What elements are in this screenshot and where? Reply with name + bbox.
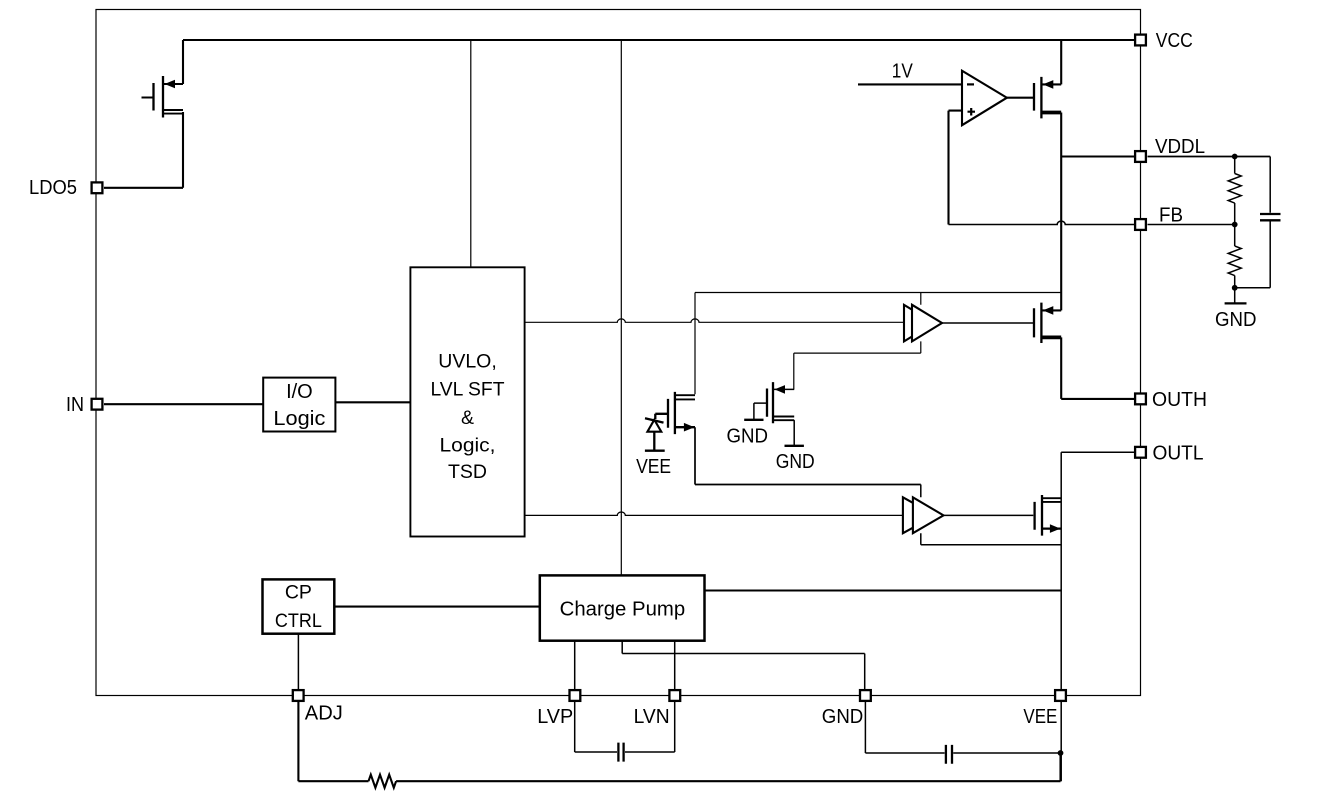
svg-text:GND: GND [727, 424, 769, 447]
svg-text:VCC: VCC [1156, 29, 1193, 52]
svg-text:UVLO,: UVLO, [438, 351, 497, 373]
svg-text:&: & [461, 407, 474, 429]
svg-text:TSD: TSD [448, 461, 487, 483]
svg-text:GND: GND [822, 705, 864, 728]
svg-text:GND: GND [1215, 308, 1257, 331]
svg-text:LVP: LVP [537, 705, 573, 728]
svg-text:Logic: Logic [273, 408, 325, 430]
svg-text:CTRL: CTRL [275, 610, 322, 632]
svg-text:OUTH: OUTH [1152, 388, 1207, 411]
svg-text:ADJ: ADJ [305, 702, 343, 725]
svg-text:GND: GND [776, 450, 815, 473]
svg-text:LDO5: LDO5 [29, 176, 77, 199]
svg-text:LVL SFT: LVL SFT [431, 378, 505, 400]
svg-text:VDDL: VDDL [1155, 135, 1205, 158]
svg-text:Charge Pump: Charge Pump [560, 598, 686, 620]
svg-text:VEE: VEE [636, 455, 671, 478]
svg-text:Logic,: Logic, [440, 435, 496, 457]
svg-text:VEE: VEE [1023, 705, 1057, 728]
svg-text:CP: CP [285, 582, 312, 604]
svg-text:I/O: I/O [286, 381, 313, 403]
svg-text:FB: FB [1159, 203, 1183, 226]
svg-text:LVN: LVN [634, 705, 670, 728]
svg-text:1V: 1V [892, 60, 913, 83]
svg-text:OUTL: OUTL [1153, 442, 1204, 465]
svg-text:IN: IN [66, 393, 84, 416]
